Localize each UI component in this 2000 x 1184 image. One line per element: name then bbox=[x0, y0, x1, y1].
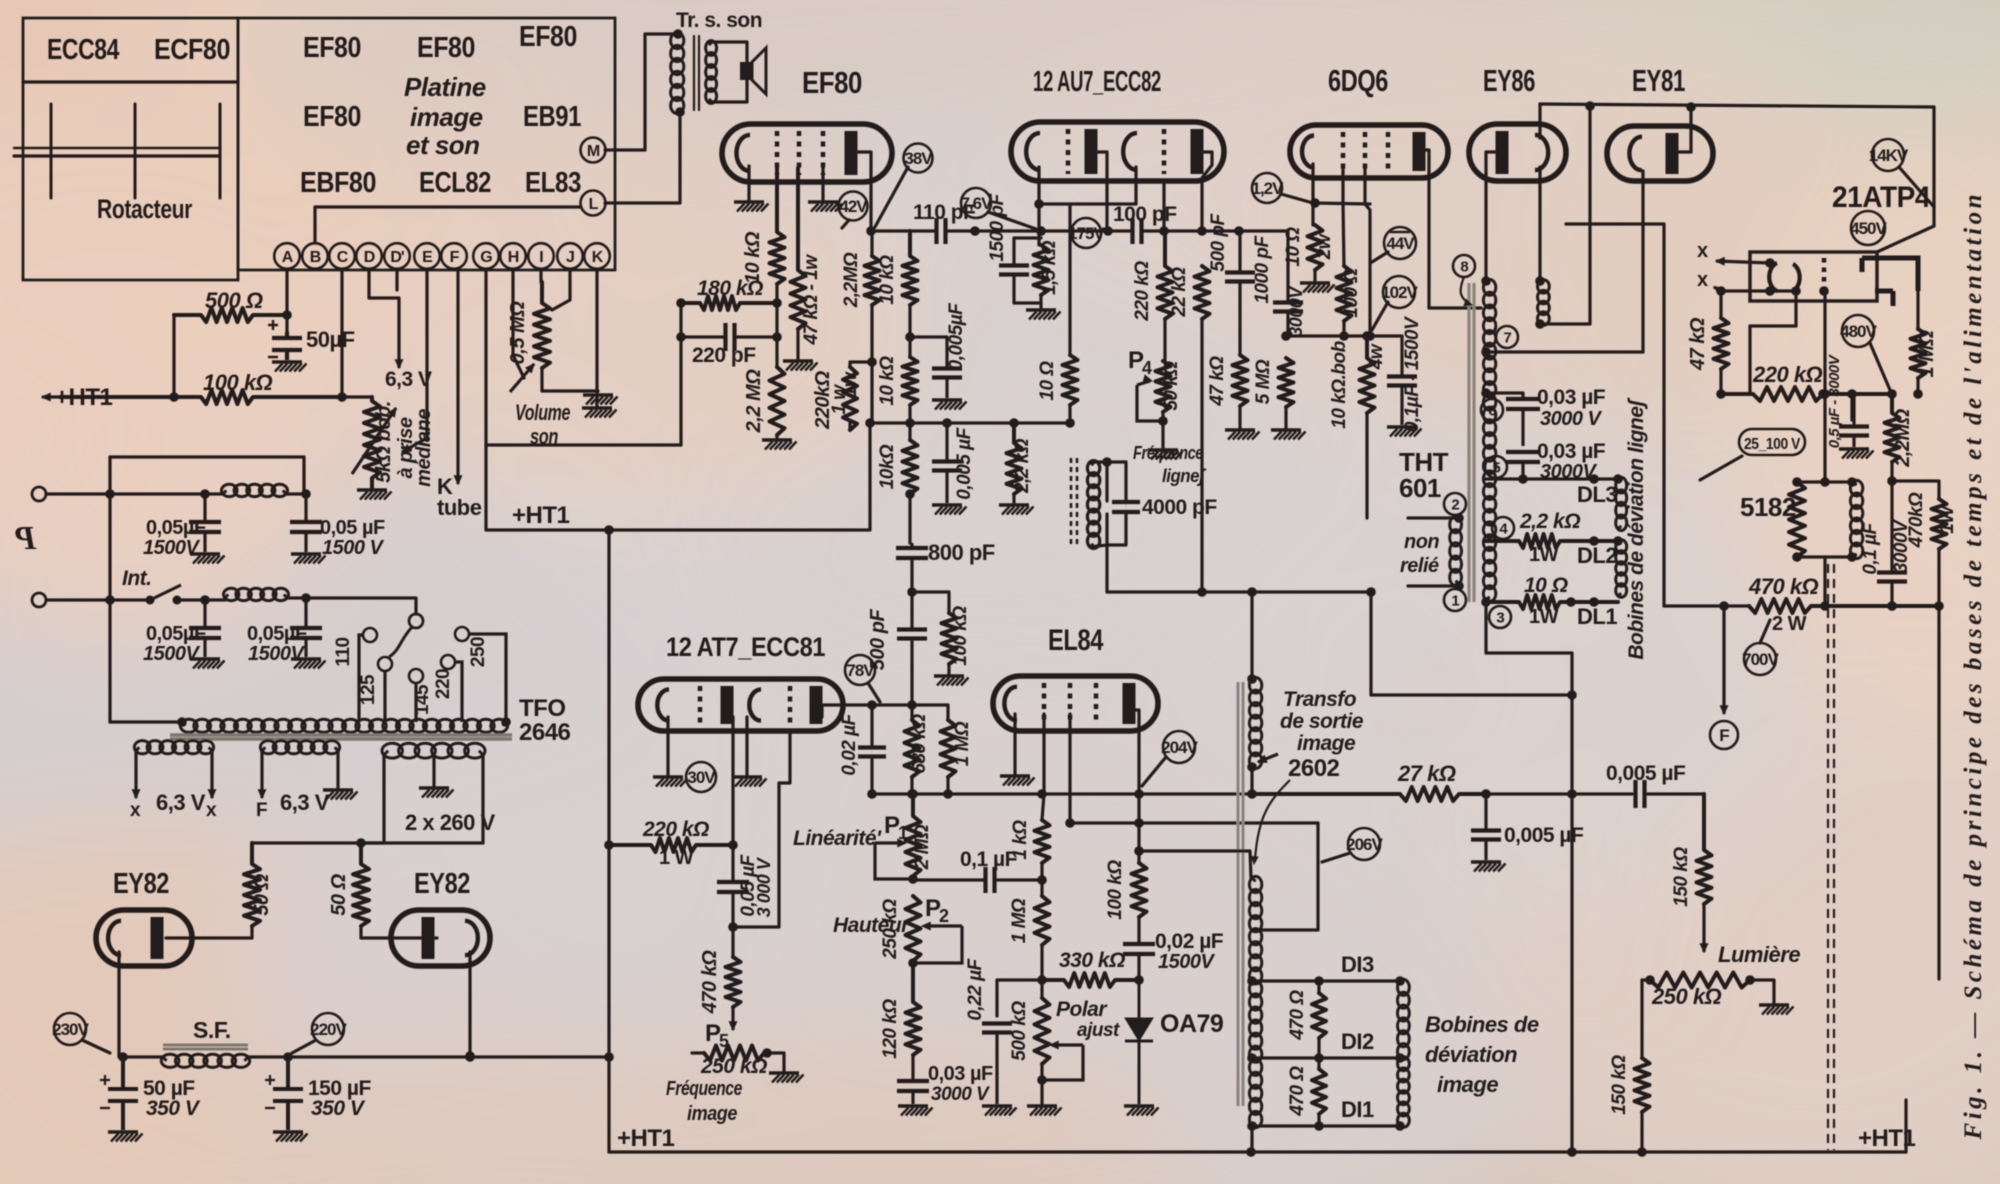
label x1 bbox=[1697, 240, 1708, 262]
resistor 1M EL84 bbox=[1035, 896, 1050, 945]
capacitor 0,1uF right bbox=[1877, 481, 1907, 604]
svg-text:470 Ω: 470 Ω bbox=[1287, 1066, 1308, 1117]
label 6,3V b bbox=[280, 790, 330, 815]
coil DI top bbox=[1398, 979, 1410, 1059]
junction rail 1691 bbox=[1686, 102, 1696, 112]
label 0,005uF c bbox=[1504, 824, 1584, 847]
junction transformer top bbox=[673, 29, 683, 39]
THT winding bbox=[1483, 280, 1495, 602]
svg-text:47 kΩ - 1w: 47 kΩ - 1w bbox=[801, 254, 822, 346]
6DQ6 g2 lead bbox=[1365, 166, 1370, 336]
ground 12AT7 c1 bbox=[653, 777, 688, 787]
junction 1070-423 bbox=[1065, 418, 1075, 428]
EY81 cathode drop bbox=[1641, 171, 1644, 352]
svg-text:Rotacteur: Rotacteur bbox=[97, 194, 193, 224]
label 1500V c bbox=[143, 643, 200, 665]
ground 5M bbox=[1271, 407, 1306, 440]
EL84 cathode lead bbox=[1013, 714, 1016, 774]
svg-text:F: F bbox=[450, 249, 460, 266]
svg-text:12 AT7_ECC81: 12 AT7_ECC81 bbox=[666, 632, 825, 662]
ground sec2 bbox=[323, 751, 358, 800]
rotacteur switch bar2 bbox=[14, 154, 220, 157]
junction DI3 a bbox=[1247, 976, 1257, 986]
filter coil top bbox=[222, 484, 288, 496]
label x2 bbox=[1697, 269, 1708, 291]
wire osc top bbox=[1107, 460, 1126, 463]
label THT bbox=[1399, 447, 1449, 477]
CRT cathode wire bbox=[1750, 291, 1796, 394]
5182 bottom wire bbox=[1797, 555, 1853, 558]
wire 10ohm down bbox=[1068, 405, 1071, 423]
EL84 anode lead bbox=[1133, 710, 1139, 863]
ground 120k bbox=[898, 1106, 933, 1116]
wire H down bbox=[513, 269, 524, 378]
voltage 78V bbox=[845, 655, 875, 685]
svg-text:6,3 V: 6,3 V bbox=[280, 790, 330, 815]
junction cap3 top bbox=[200, 595, 210, 605]
volume box right bbox=[679, 303, 682, 445]
label tube bbox=[437, 495, 482, 520]
resistor 2,2M right bbox=[1885, 394, 1900, 462]
wire I to pot bbox=[541, 269, 542, 282]
svg-text:12 AU7_ECC82: 12 AU7_ECC82 bbox=[1033, 66, 1161, 98]
svg-text:145: 145 bbox=[412, 684, 433, 715]
svg-text:47 kΩ: 47 kΩ bbox=[1207, 356, 1228, 407]
resistor 470b leads bbox=[1317, 1058, 1320, 1069]
label 3000V a bbox=[1286, 285, 1306, 337]
wire 1852-394 down bbox=[1850, 394, 1853, 420]
svg-text:DL2: DL2 bbox=[1577, 543, 1617, 568]
resistor 470a leads2 bbox=[1317, 1038, 1320, 1058]
svg-text:ECC84: ECC84 bbox=[47, 34, 119, 66]
label EY86 bbox=[1483, 63, 1535, 98]
pin 2 bbox=[1444, 493, 1466, 515]
arrow volume tap bbox=[510, 364, 534, 392]
label 100k couple bbox=[950, 606, 971, 666]
label 470 b bbox=[1287, 1066, 1308, 1117]
ground 2,2M EF80 bbox=[762, 435, 797, 450]
44V bar bbox=[1390, 231, 1410, 233]
svg-text:1W: 1W bbox=[1529, 544, 1559, 566]
wire 220k bottom bbox=[848, 423, 851, 430]
svg-text:50 Ω: 50 Ω bbox=[251, 873, 273, 915]
tap 145 bbox=[409, 669, 423, 722]
pin 6 bbox=[1481, 399, 1503, 421]
box platine image et son bbox=[238, 18, 615, 270]
resistor 10ohm 2w bbox=[1308, 225, 1323, 270]
label 2646 bbox=[519, 719, 571, 746]
resistor 2,2k col1014 bbox=[1007, 423, 1022, 494]
label P2 bbox=[925, 895, 941, 922]
label 100pF bbox=[1113, 203, 1177, 226]
wire 470k1w bot bbox=[1937, 549, 1940, 979]
capacitor 0,02uF bbox=[858, 705, 886, 794]
junction 948-794 bbox=[943, 789, 953, 799]
label 110pF bbox=[913, 201, 976, 224]
resistor 47k 1w EF80 bbox=[791, 168, 806, 329]
svg-text:image: image bbox=[410, 102, 483, 132]
svg-text:EY86: EY86 bbox=[1483, 63, 1535, 98]
svg-text:2,2MΩ: 2,2MΩ bbox=[1892, 408, 1914, 467]
ground 150uF 350 bbox=[273, 1132, 308, 1142]
junction A-500 bbox=[282, 310, 292, 320]
svg-text:0,1 µF: 0,1 µF bbox=[960, 848, 1018, 871]
svg-text:30V: 30V bbox=[687, 768, 716, 787]
audio transformer core bbox=[693, 36, 695, 110]
filter box left bbox=[108, 457, 111, 722]
junction 5182 bot bbox=[1820, 601, 1830, 611]
label 50k P4 bbox=[1161, 361, 1182, 411]
svg-text:0,05µF: 0,05µF bbox=[247, 623, 307, 645]
junction filament top bbox=[1765, 258, 1775, 268]
ground 0,1uF bbox=[1387, 427, 1422, 437]
wire 910 mid2 bbox=[908, 405, 911, 440]
svg-text:3000V: 3000V bbox=[1891, 519, 1912, 573]
label Frequence image bbox=[666, 1078, 742, 1100]
junction DL top2 bbox=[1613, 474, 1623, 484]
svg-text:3000 V: 3000 V bbox=[1540, 408, 1603, 430]
label 500ohm bbox=[205, 288, 263, 313]
svg-text:220 kΩ: 220 kΩ bbox=[642, 818, 709, 841]
pin 5 bbox=[1485, 456, 1507, 478]
label 330k bbox=[1059, 949, 1125, 972]
svg-text:680 kΩ: 680 kΩ bbox=[909, 714, 930, 774]
svg-text:3000V: 3000V bbox=[1286, 285, 1306, 337]
coil non relie bbox=[1450, 516, 1462, 585]
voltage 102V bbox=[1381, 276, 1418, 308]
svg-text:1: 1 bbox=[1451, 592, 1459, 609]
label 0,005uF d bbox=[1606, 762, 1686, 785]
label son bbox=[530, 424, 558, 449]
resistor 470k 1W right bbox=[1932, 499, 1947, 549]
svg-text:x: x bbox=[130, 800, 141, 821]
label 220k 1w a bbox=[812, 370, 834, 429]
wire C down bbox=[340, 269, 343, 397]
svg-text:6DQ6: 6DQ6 bbox=[1328, 63, 1388, 98]
svg-text:Polar: Polar bbox=[1056, 998, 1108, 1021]
svg-text:D': D' bbox=[390, 249, 404, 266]
label 500pF 12AU7 bbox=[1208, 213, 1229, 272]
filter coil bottom bbox=[224, 588, 289, 600]
junction 220p-777 bbox=[772, 332, 782, 342]
svg-text:2w: 2w bbox=[1314, 233, 1335, 260]
svg-text:F: F bbox=[256, 800, 267, 821]
label 145 bbox=[412, 684, 433, 715]
wire A down bbox=[285, 269, 288, 332]
label 500pF couple bbox=[867, 609, 889, 671]
EY86 heater return bbox=[1540, 106, 1590, 324]
voltage 450V bbox=[1850, 211, 1887, 245]
junction 912-705 bbox=[907, 700, 917, 710]
THT bottom loop bbox=[1486, 602, 1572, 1152]
svg-text:0,005 µF: 0,005 µF bbox=[954, 426, 975, 499]
capacitor 1500pF bbox=[999, 244, 1029, 296]
svg-text:DL3: DL3 bbox=[1577, 482, 1617, 507]
svg-text:OA79: OA79 bbox=[1160, 1010, 1223, 1038]
EL84 g2 lead bbox=[1068, 714, 1071, 823]
12AT7 cathode2 lead bbox=[745, 717, 748, 775]
mains wire top bbox=[46, 492, 223, 495]
svg-text:0,05µF: 0,05µF bbox=[146, 517, 206, 539]
svg-text:déviation: déviation bbox=[1425, 1042, 1517, 1067]
resistor 100k EL84 bbox=[1132, 863, 1147, 917]
junction 1139-794 bbox=[1134, 789, 1144, 799]
TFO sec 6,3V b bbox=[260, 741, 339, 754]
label 3000V 12AT7 bbox=[754, 856, 774, 917]
wire 1M12AT7 top bbox=[912, 705, 948, 720]
wire 872 col2 bbox=[870, 305, 873, 423]
label 3000V c bbox=[1540, 461, 1597, 483]
filter box top bbox=[110, 455, 304, 458]
wire bus423 bbox=[872, 421, 1070, 424]
terminal G bbox=[473, 243, 499, 269]
label 0,05uF 3000V bbox=[738, 853, 759, 916]
label 47k 12AU7 bbox=[1207, 356, 1228, 407]
label F sec bbox=[256, 800, 267, 821]
terminal I bbox=[528, 243, 554, 269]
wire CRT grid down bbox=[1823, 294, 1826, 482]
capacitor 4000pF bbox=[1112, 502, 1140, 512]
junction CRT cathode bbox=[1791, 286, 1801, 296]
label 1M right bbox=[1916, 330, 1938, 378]
label 12AU7_ECC82 bbox=[1033, 66, 1161, 98]
2602 arrow bbox=[1251, 780, 1290, 864]
svg-text:204V: 204V bbox=[1161, 738, 1198, 757]
junction EF80 anode bbox=[866, 226, 876, 236]
ground 0,05 c bbox=[190, 659, 225, 669]
svg-text:0,03 µF: 0,03 µF bbox=[1537, 386, 1606, 409]
12AU7 cathode node wire bbox=[1039, 204, 1070, 355]
coil DL2 bbox=[1616, 540, 1627, 598]
svg-text:son: son bbox=[530, 424, 558, 449]
label Linearite bbox=[793, 827, 882, 850]
svg-text:1 MΩ: 1 MΩ bbox=[1916, 330, 1938, 378]
svg-text:3: 3 bbox=[1496, 609, 1504, 626]
label 5M bbox=[1253, 359, 1274, 404]
junction bus 1202 bbox=[1197, 226, 1207, 236]
ground 5k pot bbox=[357, 490, 392, 500]
50ohm b to anode bbox=[361, 926, 437, 938]
capacitor 500pF couple bbox=[897, 630, 927, 669]
svg-text:EF80: EF80 bbox=[519, 21, 577, 53]
EY86 cathode top lead bbox=[1538, 104, 1541, 138]
resistor 470k 12AT7 bbox=[726, 957, 741, 1007]
label 0,02uF 1500V bbox=[1155, 930, 1224, 953]
pin 8 bbox=[1453, 255, 1475, 277]
label 10k bob bbox=[1329, 340, 1350, 428]
junction 220k-872 bbox=[867, 357, 877, 367]
junction HT1 609 bbox=[604, 525, 614, 535]
svg-text:4: 4 bbox=[1142, 358, 1152, 378]
terminal C bbox=[329, 243, 355, 269]
svg-text:50µF: 50µF bbox=[306, 327, 355, 352]
resistor 2,2M EF80 bbox=[770, 367, 785, 435]
transfo image core bbox=[1238, 682, 1243, 1106]
50ohm a to anode bbox=[166, 926, 252, 938]
svg-text:EB91: EB91 bbox=[523, 101, 581, 133]
ground 50uF bbox=[272, 362, 307, 372]
bus 794 right bbox=[1486, 792, 1632, 795]
svg-text:4000 pF: 4000 pF bbox=[1142, 496, 1217, 519]
junction 150uF top bbox=[283, 1052, 293, 1062]
label 0,5Mohm bbox=[507, 301, 529, 365]
label ECC84 bbox=[47, 34, 119, 66]
label DI3 bbox=[1341, 952, 1374, 977]
caption fig1 bbox=[1960, 195, 1987, 1141]
capacitor 0,05uF b bbox=[290, 494, 322, 552]
pin8 arrow bbox=[1461, 277, 1472, 306]
svg-text:250: 250 bbox=[468, 637, 489, 667]
svg-text:tube: tube bbox=[437, 495, 482, 520]
tube EY82 a bbox=[96, 910, 192, 966]
svg-text:P: P bbox=[15, 520, 37, 557]
EY86 heater coil bbox=[1538, 280, 1550, 326]
label 3000V e bbox=[931, 1084, 990, 1105]
label 0,1uF EL84 bbox=[960, 848, 1018, 871]
label 0,1uF right bbox=[1860, 521, 1881, 574]
SF left wire bbox=[119, 1055, 163, 1058]
junction rail 1590 bbox=[1585, 101, 1595, 111]
svg-text:Fréquence: Fréquence bbox=[1133, 443, 1203, 463]
svg-text:100 kΩ: 100 kΩ bbox=[950, 606, 971, 666]
junction bus 1108 bbox=[1103, 226, 1113, 236]
lumiere left down bbox=[1642, 980, 1650, 1058]
oscillator box2 bbox=[1090, 514, 1107, 547]
junction 1371-592 bbox=[1366, 587, 1376, 597]
svg-text:+HT1: +HT1 bbox=[617, 1125, 675, 1152]
label 10k a col910 bbox=[877, 255, 898, 305]
capacitor 0,005uF d bbox=[1636, 780, 1705, 808]
pin 4 bbox=[1492, 517, 1514, 539]
junction 606-1939 bbox=[1934, 601, 1944, 611]
svg-text:230V: 230V bbox=[52, 1020, 89, 1039]
label 12AT7_ECC81 bbox=[666, 632, 825, 662]
label EF80 a bbox=[303, 32, 361, 64]
voltage 44V bbox=[1384, 227, 1416, 259]
svg-text:J: J bbox=[566, 249, 574, 266]
junction TFO right bbox=[501, 717, 511, 727]
tap 220 bbox=[441, 655, 462, 722]
label 10k g1 EF80 bbox=[742, 231, 764, 284]
junction 733-845 bbox=[728, 840, 738, 850]
junction bus 1164 bbox=[1159, 226, 1169, 236]
svg-text:250 kΩ: 250 kΩ bbox=[700, 1055, 767, 1078]
svg-text:DI3: DI3 bbox=[1341, 952, 1374, 977]
svg-text:5kΩ bob.: 5kΩ bob. bbox=[373, 401, 395, 483]
label 0,05uF b bbox=[320, 517, 385, 539]
label 27k bbox=[1397, 761, 1456, 786]
junction P2 bot bbox=[908, 958, 918, 968]
ground K bbox=[582, 408, 617, 418]
junction 1139-980 bbox=[1134, 975, 1144, 985]
label image3 bbox=[1297, 732, 1356, 755]
svg-text:10 kΩ: 10 kΩ bbox=[877, 356, 898, 406]
label +HT1 bottom right bbox=[1858, 1125, 1916, 1152]
svg-text:330 kΩ: 330 kΩ bbox=[1059, 949, 1125, 972]
svg-text:M: M bbox=[587, 143, 600, 160]
label EY81 bbox=[1632, 63, 1685, 98]
label 2x260V bbox=[405, 810, 496, 835]
terminal B bbox=[302, 243, 328, 269]
label 180kohm bbox=[697, 277, 763, 300]
pointer 78V bbox=[868, 683, 880, 702]
wire 872 col bbox=[870, 231, 873, 256]
pointer 25-100V bbox=[1700, 456, 1742, 480]
wire 0,5uF top bbox=[1852, 394, 1855, 396]
junction 1367-336 bbox=[1362, 331, 1372, 341]
wire 1k to 1M bbox=[1040, 863, 1043, 896]
junction EY82b cath bbox=[465, 1051, 475, 1061]
svg-text:350 V: 350 V bbox=[311, 1097, 366, 1120]
junction 6DQ6 cath bbox=[1310, 198, 1320, 208]
ground 12AT7 c2 bbox=[732, 777, 767, 787]
wire to transfo image bbox=[1250, 592, 1253, 679]
svg-text:2: 2 bbox=[1451, 496, 1459, 513]
resistor 100ohm bbox=[1337, 266, 1352, 321]
svg-text:EY81: EY81 bbox=[1632, 63, 1685, 98]
wire 500k gnd bbox=[1040, 1064, 1043, 1104]
pin 1 bbox=[1444, 589, 1466, 611]
ground 0,5uF bbox=[1839, 449, 1874, 459]
label +HT1 left bbox=[55, 384, 113, 411]
svg-text:I: I bbox=[539, 249, 543, 266]
svg-text:EL83: EL83 bbox=[525, 167, 581, 199]
junction DI2 c bbox=[1395, 1053, 1405, 1063]
rotacteur switch bars bbox=[14, 147, 220, 149]
label 220 bbox=[433, 669, 454, 699]
non relie bottom bbox=[1408, 584, 1459, 587]
svg-text:0,05µF: 0,05µF bbox=[146, 623, 206, 645]
svg-text:F: F bbox=[1719, 726, 1729, 745]
voltage 30V bbox=[686, 762, 716, 792]
svg-text:B: B bbox=[310, 249, 321, 266]
wire tp bottom bbox=[1250, 767, 1253, 794]
junction DL1b bbox=[1589, 597, 1599, 607]
label ajust bbox=[1077, 1020, 1120, 1041]
resistor 470k 2W bbox=[1749, 599, 1939, 613]
ground P5 bbox=[769, 1073, 804, 1083]
label P1 bbox=[884, 812, 900, 839]
svg-text:x: x bbox=[1697, 240, 1708, 262]
voltage 14KV bbox=[1869, 139, 1909, 171]
wire cap to grid loop bbox=[733, 731, 790, 927]
pointer 102V bbox=[1372, 302, 1388, 330]
svg-text:EF80: EF80 bbox=[417, 32, 475, 64]
junction tap6 bbox=[1481, 388, 1491, 398]
wire 912 col bbox=[910, 668, 913, 720]
svg-text:EF80: EF80 bbox=[303, 32, 361, 64]
svg-text:175V: 175V bbox=[1068, 224, 1105, 243]
label 1w col872 bbox=[840, 371, 861, 397]
svg-text:0,22 µF: 0,22 µF bbox=[965, 957, 986, 1020]
label 150k b bbox=[1609, 1055, 1630, 1115]
wire C to pot bbox=[342, 395, 372, 398]
junction 872-705 bbox=[867, 700, 877, 710]
svg-text:10 Ω: 10 Ω bbox=[1283, 227, 1304, 267]
capacitor 110pF bbox=[937, 218, 946, 244]
svg-text:3000 V: 3000 V bbox=[931, 1084, 990, 1105]
label et son bbox=[406, 130, 480, 160]
svg-text:Lumière: Lumière bbox=[1718, 942, 1800, 967]
label Rotacteur bbox=[97, 194, 193, 224]
svg-text:C: C bbox=[337, 249, 349, 266]
svg-text:100 kΩ: 100 kΩ bbox=[1105, 860, 1126, 920]
label 50uF bbox=[306, 327, 355, 352]
oscillator core dashed bbox=[1071, 458, 1077, 548]
junction DL2 bbox=[1589, 536, 1599, 546]
svg-text:E: E bbox=[422, 249, 433, 266]
label x sec2 bbox=[206, 800, 217, 821]
